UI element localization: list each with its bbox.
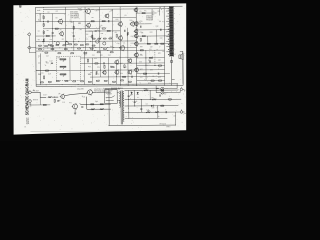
- transistor Q7: [130, 21, 135, 27]
- svg-text:47u: 47u: [97, 30, 100, 32]
- bottom faint fold line: [30, 130, 120, 133]
- capacitor C13: [81, 106, 83, 109]
- resistor R2: [43, 24, 44, 27]
- potentiometer VR2: [60, 66, 66, 69]
- parts list text block: [70, 11, 80, 19]
- wire: [73, 21, 75, 50]
- wire: [168, 91, 180, 93]
- wire: [171, 57, 173, 86]
- svg-text:R34: R34: [140, 46, 143, 48]
- connector J2: [27, 46, 30, 49]
- svg-text:C8: C8: [115, 32, 117, 34]
- resistor R78: [155, 111, 159, 113]
- junction: [88, 46, 91, 49]
- resistor R15: [45, 45, 48, 46]
- junction: [51, 27, 54, 30]
- resistor R69: [48, 96, 52, 98]
- transistor Q9: [119, 45, 124, 51]
- svg-text:R22: R22: [84, 54, 87, 56]
- svg-text:10: 10: [174, 54, 176, 56]
- wire: [39, 14, 41, 22]
- pin label ticks: [171, 51, 183, 79]
- junction: [154, 64, 157, 67]
- wire: [83, 51, 85, 85]
- white schematic paper sheet: [13, 3, 186, 134]
- resistor R30: [78, 48, 81, 49]
- svg-text:47u: 47u: [144, 10, 147, 12]
- svg-text:2SC1030: 2SC1030: [77, 88, 84, 90]
- junction: [65, 40, 68, 43]
- resistor R19: [69, 44, 72, 45]
- resistor R6: [43, 39, 45, 42]
- junction: [99, 69, 102, 72]
- wire: [125, 105, 179, 107]
- transformer primary winding: [119, 91, 120, 107]
- transistor Q15: [133, 7, 137, 12]
- transistor Q4: [86, 22, 91, 28]
- resistor R35: [110, 52, 113, 53]
- wire: [154, 50, 156, 65]
- capacitor C5: [123, 30, 126, 32]
- svg-text:Q1: Q1: [38, 39, 40, 41]
- junction: [42, 40, 45, 43]
- svg-text:0.1: 0.1: [71, 22, 73, 24]
- wire: [36, 46, 137, 49]
- resistor R24: [39, 49, 42, 50]
- svg-text:10k: 10k: [141, 32, 144, 34]
- wire: [36, 35, 56, 37]
- wire: [87, 108, 111, 110]
- svg-text:R25: R25: [88, 66, 91, 68]
- ground: [74, 113, 76, 114]
- junction: [64, 40, 67, 43]
- capacitor C19: [73, 35, 75, 38]
- svg-text:4.7k: 4.7k: [152, 11, 155, 13]
- reference labels scatter: [38, 11, 163, 86]
- transistor Q22: [60, 94, 65, 100]
- resistor R12: [116, 34, 117, 37]
- resistor R79: [161, 90, 164, 91]
- svg-text:C22: C22: [160, 38, 163, 40]
- wire: [136, 29, 169, 31]
- wire: [36, 69, 165, 72]
- svg-text:C4: C4: [86, 38, 88, 40]
- resistor R85: [103, 38, 106, 39]
- wire: [137, 57, 165, 59]
- resistor R74: [100, 108, 104, 110]
- resistor R48: [65, 80, 68, 81]
- svg-text:C23: C23: [150, 46, 153, 48]
- wire: [140, 99, 142, 112]
- junction: [42, 20, 45, 23]
- capacitor C10: [159, 29, 162, 31]
- svg-text:R8: R8: [80, 29, 82, 31]
- svg-text:R17: R17: [131, 43, 134, 45]
- wire: [115, 63, 117, 84]
- wire: [31, 47, 36, 49]
- terminal strip TB1: [168, 6, 174, 56]
- wire: [65, 7, 67, 51]
- svg-text:0.047: 0.047: [78, 8, 82, 10]
- svg-text:R21: R21: [38, 55, 41, 57]
- resistor R50: [81, 81, 84, 82]
- resistor R37: [43, 76, 44, 79]
- svg-text:C5: C5: [72, 32, 74, 34]
- resistor R80: [161, 105, 164, 106]
- junction: [39, 12, 42, 15]
- svg-text:R38: R38: [158, 77, 161, 79]
- transistor Q2: [59, 31, 64, 37]
- resistor R31: [84, 52, 87, 53]
- svg-text:6.8k: 6.8k: [62, 102, 65, 104]
- transformer secondary winding lower: [123, 108, 124, 121]
- wire: [80, 62, 164, 65]
- resistor R21: [80, 45, 83, 46]
- resistor R26: [51, 49, 54, 50]
- capacitor C3: [107, 20, 110, 22]
- parts text block right: [146, 15, 153, 21]
- connector J1: [27, 32, 30, 35]
- capacitor C15: [134, 101, 136, 104]
- wire: [52, 96, 58, 98]
- resistor R28: [64, 49, 67, 50]
- junction: [125, 83, 128, 86]
- wire: [168, 84, 177, 89]
- junction: [100, 46, 103, 49]
- junction: [82, 46, 85, 49]
- capacitor C1: [47, 20, 50, 22]
- svg-text:Q2: Q2: [62, 39, 64, 41]
- transistor Q8: [118, 35, 123, 41]
- junction: [140, 98, 143, 101]
- resistor R18: [63, 45, 66, 46]
- resistor R82: [92, 35, 93, 38]
- resistor R17: [56, 45, 59, 46]
- junction: [51, 34, 54, 37]
- capacitor C20: [57, 99, 59, 102]
- transistor Q21: [134, 67, 139, 73]
- wire: [86, 97, 88, 110]
- wire: [125, 98, 182, 100]
- resistor R13: [127, 32, 129, 35]
- svg-text:C19: C19: [131, 71, 134, 73]
- junction: [93, 83, 96, 86]
- svg-text:6.8k: 6.8k: [83, 96, 86, 98]
- svg-text:0.22: 0.22: [139, 61, 142, 63]
- wire: [125, 111, 176, 113]
- wire: [112, 9, 114, 50]
- resistor R49: [73, 81, 76, 82]
- connector J3: [28, 90, 31, 93]
- svg-text:C14: C14: [108, 55, 111, 57]
- resistor R7: [48, 44, 51, 45]
- svg-text:33k: 33k: [146, 103, 149, 105]
- resistor R83: [92, 38, 95, 39]
- junction: [156, 104, 159, 107]
- junction: [85, 92, 88, 95]
- diode D2: [137, 92, 139, 94]
- junction: [109, 83, 112, 86]
- wire: [85, 30, 120, 32]
- resistor R46: [48, 81, 51, 82]
- component value labels: [38, 7, 176, 119]
- wire: [39, 53, 41, 84]
- wire: [52, 14, 54, 51]
- svg-text:C15: C15: [38, 62, 41, 64]
- capacitor C17: [159, 94, 162, 96]
- wire: [155, 86, 157, 93]
- wire: [91, 31, 93, 51]
- junction: [93, 49, 96, 52]
- svg-text:10k: 10k: [111, 10, 114, 12]
- fuse F1: [168, 98, 171, 100]
- scan grain: [15, 5, 186, 131]
- svg-text:4.7k: 4.7k: [138, 22, 141, 24]
- capacitor C16: [140, 108, 142, 111]
- resistor R22: [86, 44, 89, 45]
- wire: [145, 50, 147, 80]
- wire: [127, 28, 129, 86]
- resistor R20: [74, 44, 77, 45]
- svg-text:R32: R32: [156, 26, 159, 28]
- wire: [157, 106, 159, 119]
- svg-text:100: 100: [140, 54, 143, 56]
- wire: [105, 87, 159, 89]
- resistor R1: [43, 16, 44, 19]
- junction: [174, 124, 177, 127]
- wire: [39, 97, 41, 105]
- transistor Q17: [134, 29, 138, 34]
- wire: [149, 90, 151, 99]
- transistor Q6: [117, 21, 122, 27]
- wire: [36, 20, 120, 23]
- resistor R55: [120, 80, 123, 81]
- resistor R42: [124, 65, 125, 68]
- resistor R39: [95, 63, 98, 64]
- wire: [36, 70, 56, 72]
- diode D1: [131, 92, 133, 94]
- svg-text:560: 560: [164, 93, 167, 95]
- svg-text:D1: D1: [140, 11, 142, 13]
- wire: [163, 6, 166, 85]
- transistor Q19: [134, 41, 138, 46]
- wire: [34, 104, 50, 106]
- wire: [147, 36, 149, 44]
- wire: [69, 57, 71, 80]
- wire: [125, 117, 168, 119]
- svg-text:0.047: 0.047: [43, 94, 47, 96]
- capacitor C7: [103, 62, 106, 64]
- junction: [77, 83, 80, 86]
- stubs from terminal strip: [166, 11, 170, 52]
- junction: [115, 75, 118, 78]
- black mount background: [0, 0, 200, 141]
- resistor R4: [43, 31, 44, 34]
- svg-text:C26: C26: [150, 69, 153, 71]
- potentiometer VR1: [60, 59, 66, 62]
- junction: [118, 46, 121, 49]
- junction: [80, 49, 83, 52]
- svg-text:C27: C27: [140, 77, 143, 79]
- wire: [43, 7, 45, 51]
- wire: [108, 90, 110, 125]
- svg-text:R36: R36: [148, 60, 151, 62]
- svg-text:33k: 33k: [58, 100, 61, 102]
- junction: [58, 46, 61, 49]
- wire: [84, 7, 86, 51]
- svg-text:C25: C25: [158, 60, 161, 62]
- resistor R63: [140, 50, 143, 51]
- resistor R87: [43, 104, 46, 105]
- svg-text:100: 100: [90, 72, 93, 74]
- capacitor C2: [52, 31, 54, 34]
- junction: [133, 104, 136, 107]
- wire: [80, 57, 136, 59]
- transistor Q13: [127, 58, 132, 64]
- resistor R75: [144, 89, 148, 91]
- junction: [98, 30, 101, 33]
- wire: [134, 90, 136, 106]
- resistor R68: [158, 80, 161, 81]
- resistor R64: [149, 57, 152, 58]
- svg-text:4.7k: 4.7k: [162, 21, 165, 23]
- pilot lamp PL1: [156, 87, 168, 90]
- svg-text:VD1212: VD1212: [146, 19, 153, 21]
- svg-text:100: 100: [86, 34, 89, 36]
- svg-text:R11: R11: [101, 33, 104, 35]
- resistor R23: [92, 45, 95, 46]
- svg-text:10k: 10k: [159, 21, 162, 23]
- resistor R65: [158, 65, 161, 66]
- resistor R9: [102, 21, 105, 22]
- junction: [67, 49, 70, 52]
- resistor R43: [122, 76, 125, 77]
- svg-text:50B-2: 50B-2: [166, 126, 170, 128]
- junction: [54, 49, 57, 52]
- svg-text:R30: R30: [120, 73, 123, 75]
- caution note text: [94, 87, 121, 92]
- junction: [46, 47, 49, 50]
- wire: [137, 65, 165, 67]
- terminal E2: [180, 109, 184, 113]
- svg-text:220: 220: [55, 11, 58, 13]
- transistor Q5: [104, 13, 109, 19]
- junction: [127, 98, 130, 101]
- potentiometer VR3: [60, 74, 66, 77]
- resistor R14: [39, 45, 42, 46]
- wire: [136, 49, 164, 51]
- wire: [175, 111, 180, 113]
- svg-text:C9: C9: [125, 15, 127, 17]
- resistor R72: [100, 104, 103, 105]
- transistor Q3: [85, 8, 91, 15]
- svg-text:PRE OUT: PRE OUT: [33, 90, 39, 92]
- capacitor C4: [95, 30, 97, 33]
- wire: [113, 17, 137, 19]
- transistor Q10: [102, 70, 106, 75]
- svg-text:150k: 150k: [151, 107, 154, 109]
- junction: [111, 29, 114, 32]
- resistor R45: [40, 82, 43, 83]
- wire: [99, 51, 101, 77]
- pilot lamp PL2: [156, 91, 168, 94]
- svg-text:1k: 1k: [123, 42, 125, 44]
- resistor R81: [73, 26, 74, 29]
- junction: [106, 49, 109, 52]
- svg-text:R26: R26: [110, 66, 113, 68]
- svg-text:33k: 33k: [97, 74, 100, 76]
- junction: [77, 40, 80, 43]
- resistor R73: [91, 108, 95, 110]
- svg-text:0.1: 0.1: [137, 97, 139, 99]
- wire: [137, 72, 170, 74]
- wire: [151, 9, 153, 20]
- wire: [74, 109, 76, 113]
- svg-text:100: 100: [159, 7, 162, 9]
- capacitor C9: [139, 26, 142, 28]
- resistor R70: [54, 99, 55, 102]
- svg-text:C2: C2: [38, 30, 40, 32]
- svg-text:POWER: POWER: [106, 93, 113, 95]
- resistor R58: [147, 43, 150, 44]
- resistor R8: [91, 21, 94, 22]
- capacitor C14: [128, 95, 130, 98]
- wire: [117, 100, 119, 104]
- junction: [106, 46, 109, 49]
- transistor Q24: [72, 103, 78, 110]
- wire: [125, 89, 179, 91]
- junction: [94, 46, 97, 49]
- svg-text:R1: R1: [38, 19, 40, 21]
- transformer secondary winding: [123, 91, 124, 107]
- svg-text:R33: R33: [150, 32, 153, 34]
- svg-text:R9: R9: [92, 17, 94, 19]
- resistor R40: [104, 65, 105, 68]
- wire: [44, 27, 100, 29]
- resistor R53: [104, 80, 107, 81]
- wire: [99, 7, 101, 51]
- svg-text:0.01: 0.01: [149, 49, 152, 51]
- wire: [107, 58, 109, 85]
- svg-text:R12: R12: [116, 19, 119, 21]
- svg-text:R16: R16: [131, 36, 134, 38]
- capacitor C18: [165, 111, 168, 113]
- junction: [41, 50, 44, 53]
- wire: [66, 8, 137, 11]
- resistor R61: [142, 35, 145, 36]
- svg-text:4.7k: 4.7k: [78, 22, 81, 24]
- svg-text:100: 100: [174, 115, 177, 117]
- resistor R32: [90, 48, 93, 49]
- label: [29, 104, 31, 106]
- svg-text:R5: R5: [47, 30, 49, 32]
- resistor R3: [55, 28, 58, 29]
- wire: [128, 90, 130, 118]
- junction: [70, 46, 73, 49]
- junction: [149, 98, 152, 101]
- svg-text:R4: R4: [74, 39, 76, 41]
- wire: [31, 92, 46, 97]
- wire: [136, 43, 169, 45]
- resistor R62: [140, 38, 141, 41]
- capacitor C12: [157, 72, 160, 74]
- power switch block S1: [105, 90, 118, 104]
- transistor Q23: [87, 89, 93, 96]
- capacitor C6: [51, 62, 53, 65]
- resistor R57: [142, 12, 145, 13]
- wire: [90, 76, 165, 79]
- main circuit border box: [36, 6, 184, 86]
